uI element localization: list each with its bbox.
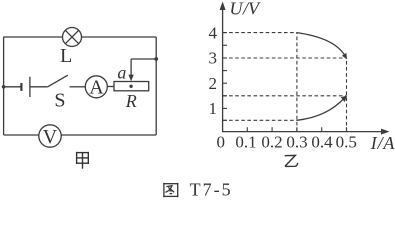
svg-text:R: R bbox=[125, 91, 137, 111]
dashed U=3 bbox=[223, 57, 347, 59]
curve upper arrowhead bbox=[342, 53, 347, 59]
dashed I=0.3 bbox=[296, 33, 298, 132]
x axis ticks bbox=[247, 127, 346, 131]
svg-text:A: A bbox=[89, 77, 104, 99]
ammeter A bbox=[85, 76, 107, 98]
label yi (乙) bbox=[285, 155, 298, 166]
dashed U=0.5 bbox=[223, 119, 297, 121]
wire to battery bbox=[4, 86, 21, 88]
svg-text:I/A: I/A bbox=[370, 133, 395, 153]
y axis bbox=[222, 4, 224, 132]
dashed guide lines bbox=[223, 33, 347, 132]
svg-text:/V: /V bbox=[242, 0, 261, 19]
x axis arrowhead bbox=[381, 129, 390, 135]
svg-text:2: 2 bbox=[209, 74, 218, 93]
node slider junction bbox=[154, 57, 158, 61]
wire battery to switch bbox=[30, 86, 48, 88]
svg-text:U: U bbox=[230, 0, 244, 19]
wire bottom left to voltmeter bbox=[4, 134, 39, 136]
svg-text:0.2: 0.2 bbox=[261, 133, 282, 152]
svg-text:4: 4 bbox=[209, 23, 218, 42]
battery cell bbox=[21, 77, 30, 97]
wire ammeter to rheostat bbox=[107, 86, 114, 88]
wire switch to ammeter bbox=[70, 86, 86, 88]
dashed U=1.5 bbox=[223, 95, 347, 97]
svg-text:S: S bbox=[54, 90, 65, 112]
dashed I=0.5 bbox=[346, 58, 348, 132]
y axis ticks bbox=[223, 33, 227, 121]
svg-text:0.4: 0.4 bbox=[311, 133, 333, 152]
wire slider branch bbox=[131, 58, 156, 60]
voltmeter V bbox=[39, 125, 61, 147]
node wiper contact bbox=[129, 85, 132, 88]
curve lower arrowhead bbox=[341, 96, 347, 103]
node battery junction bbox=[2, 85, 6, 89]
svg-text:L: L bbox=[60, 45, 72, 67]
lamp L bbox=[63, 28, 82, 47]
y axis arrowhead bbox=[220, 2, 226, 11]
y tick labels bbox=[209, 23, 218, 118]
label tu (图) bbox=[163, 183, 178, 197]
label jia (甲) bbox=[76, 152, 89, 169]
svg-text:T7-5: T7-5 bbox=[190, 179, 233, 199]
svg-text:V: V bbox=[43, 126, 58, 148]
wire slider stem bbox=[130, 59, 132, 76]
wire bottom right to voltmeter bbox=[61, 134, 156, 136]
switch S bbox=[48, 75, 68, 87]
wire lamp to top right corner bbox=[82, 36, 157, 38]
wire left vertical bbox=[3, 37, 5, 135]
svg-text:0.3: 0.3 bbox=[286, 133, 307, 152]
svg-text:a: a bbox=[117, 63, 126, 83]
wire top left to lamp bbox=[4, 36, 63, 38]
x axis bbox=[222, 131, 387, 133]
x tick labels bbox=[217, 133, 357, 152]
curve upper branch bbox=[297, 33, 345, 57]
graph axes bbox=[222, 4, 387, 132]
svg-text:0.5: 0.5 bbox=[336, 133, 357, 152]
dashed U=4 bbox=[223, 32, 297, 34]
svg-text:0: 0 bbox=[217, 133, 226, 152]
svg-text:0.1: 0.1 bbox=[235, 133, 256, 152]
curve lower branch bbox=[297, 98, 345, 121]
svg-text:3: 3 bbox=[209, 49, 218, 68]
svg-text:1: 1 bbox=[209, 99, 218, 118]
resistor R rheostat body bbox=[114, 82, 149, 91]
wire right vertical bbox=[155, 37, 157, 135]
slider arrowhead bbox=[128, 75, 133, 82]
